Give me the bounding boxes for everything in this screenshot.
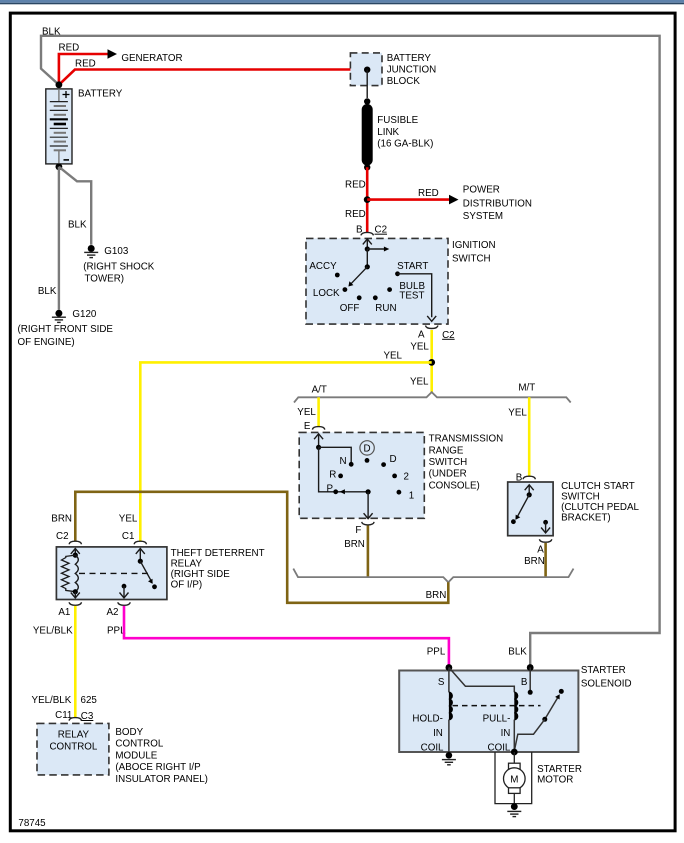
- wire BLK battery to top rail to starter solenoid B: [41, 36, 660, 666]
- battery negative junction dot: [56, 163, 63, 170]
- trans entry arrow up: [314, 434, 323, 439]
- battery junction block: [350, 53, 382, 86]
- svg-text:YEL: YEL: [410, 376, 429, 387]
- ignition feed arrow right: [367, 248, 384, 250]
- svg-text:N: N: [340, 456, 347, 467]
- node pull-in coil bottom junction: [511, 749, 518, 756]
- arrow to P contact: [340, 489, 345, 494]
- svg-text:PULL-: PULL-: [483, 714, 511, 725]
- svg-text:YEL: YEL: [119, 513, 138, 524]
- svg-text:S: S: [438, 677, 445, 688]
- svg-text:M/T: M/T: [518, 383, 535, 394]
- brace BRN bundle: [293, 569, 573, 583]
- svg-text:BLK: BLK: [42, 27, 61, 38]
- ground G120: [55, 310, 62, 317]
- svg-text:2: 2: [404, 472, 409, 483]
- connector F cup: [362, 522, 374, 525]
- contact LOCK: [343, 287, 348, 292]
- clutch start switch box: [508, 482, 553, 536]
- node ignition feed dot: [365, 246, 370, 251]
- node trans feed dot: [316, 445, 321, 450]
- contact 1: [397, 490, 402, 495]
- node relay switch pivot: [138, 559, 143, 564]
- contact solenoid switch upper: [559, 689, 564, 694]
- transmission range switch box: [299, 432, 424, 518]
- node relay coil top: [73, 553, 78, 558]
- svg-text:CLUTCH START: CLUTCH START: [561, 481, 635, 492]
- svg-text:BATTERY: BATTERY: [78, 89, 123, 100]
- wire PPL relay A2 to starter solenoid S: [124, 606, 449, 668]
- connector A1 cup: [69, 602, 81, 605]
- svg-text:BATTERY: BATTERY: [387, 53, 432, 64]
- svg-text:SYSTEM: SYSTEM: [463, 211, 503, 222]
- svg-text:RED: RED: [345, 179, 366, 190]
- svg-text:CONTROL: CONTROL: [49, 742, 97, 753]
- svg-text:MODULE: MODULE: [115, 751, 157, 762]
- relay switch entry arrow up: [136, 549, 145, 554]
- connector C11 arc: [69, 718, 81, 721]
- connector C2 relay arc: [69, 541, 81, 544]
- svg-text:ACCY: ACCY: [309, 261, 337, 272]
- svg-text:SWITCH: SWITCH: [429, 457, 468, 468]
- wire clutch right contact down: [545, 522, 547, 533]
- svg-text:START: START: [397, 261, 428, 272]
- svg-text:SWITCH: SWITCH: [561, 492, 600, 503]
- brace A/T M/T: [294, 392, 571, 402]
- svg-text:D: D: [390, 454, 397, 465]
- wire trans feed to P row: [319, 447, 369, 492]
- svg-text:M: M: [510, 775, 518, 786]
- svg-text:TEST: TEST: [399, 290, 424, 301]
- svg-text:OF I/P): OF I/P): [171, 580, 203, 591]
- relay A2 exit arrow down: [123, 586, 125, 598]
- svg-text:BODY: BODY: [115, 727, 143, 738]
- svg-text:JUNCTION: JUNCTION: [387, 65, 437, 76]
- contact 2: [392, 474, 397, 479]
- contact solenoid switch lower: [542, 717, 547, 722]
- svg-text:BRN: BRN: [524, 556, 545, 567]
- svg-text:YEL: YEL: [508, 408, 527, 419]
- contact OFF: [357, 295, 362, 300]
- svg-text:R: R: [329, 469, 336, 480]
- svg-text:YEL: YEL: [410, 342, 429, 353]
- svg-text:625: 625: [81, 695, 98, 706]
- relay dashed link: [79, 572, 148, 574]
- contact R: [338, 474, 343, 479]
- svg-text:(ABOCE RIGHT I/P: (ABOCE RIGHT I/P: [115, 762, 201, 773]
- wire YEL/BLK relay A1 to BCM: [74, 606, 77, 718]
- svg-text:MOTOR: MOTOR: [537, 774, 573, 785]
- connector C2 ignition bottom cup: [426, 326, 438, 329]
- svg-text:SOLENOID: SOLENOID: [581, 678, 632, 689]
- svg-text:RELAY: RELAY: [58, 730, 90, 741]
- wire START to exit: [398, 274, 432, 317]
- node trans exit junction: [366, 489, 371, 494]
- svg-text:BLK: BLK: [68, 220, 87, 231]
- contact D right: [381, 462, 386, 467]
- svg-text:HOLD-: HOLD-: [412, 714, 442, 725]
- battery: [46, 89, 72, 164]
- fusible link: [362, 110, 373, 161]
- svg-text:C2: C2: [56, 531, 69, 542]
- svg-text:D: D: [364, 444, 371, 455]
- svg-text:TOWER): TOWER): [85, 273, 125, 284]
- svg-text:78745: 78745: [18, 818, 46, 829]
- relay switch arm: [140, 561, 152, 583]
- svg-text:FUSIBLE: FUSIBLE: [377, 115, 418, 126]
- arrow to generator: [108, 49, 118, 59]
- svg-text:(UNDER: (UNDER: [429, 469, 467, 480]
- clutch arm to lower contact: [517, 495, 529, 517]
- node clutch arm pivot: [527, 492, 532, 497]
- contact clutch lower-left: [511, 519, 516, 524]
- svg-text:STARTER: STARTER: [537, 764, 582, 775]
- wire B to contact: [529, 668, 531, 691]
- svg-text:DISTRIBUTION: DISTRIBUTION: [463, 199, 532, 210]
- ground G103: [88, 245, 95, 252]
- contact relay A2: [122, 584, 127, 589]
- wire RED fusible link to ignition switch: [366, 167, 369, 232]
- wire RED battery to junction block: [59, 70, 367, 85]
- top title bar: [0, 0, 684, 3]
- svg-text:INSULATOR PANEL): INSULATOR PANEL): [115, 774, 208, 785]
- svg-text:E: E: [304, 421, 311, 432]
- svg-text:BLOCK: BLOCK: [387, 76, 421, 87]
- svg-text:RED: RED: [75, 58, 96, 69]
- contact START: [395, 271, 400, 276]
- clutch exit arrow down: [541, 528, 550, 533]
- wire hold-in coil to ground: [448, 720, 450, 756]
- wire BLK battery to G120: [58, 167, 60, 310]
- svg-text:BRN: BRN: [344, 539, 365, 550]
- svg-text:YEL: YEL: [297, 407, 316, 418]
- svg-text:(16 GA-BLK): (16 GA-BLK): [377, 139, 433, 150]
- wire S to hold-in coil: [448, 668, 450, 693]
- wire S branch to pull-in coil: [449, 668, 514, 693]
- starter solenoid box: [399, 671, 578, 753]
- svg-text:IN: IN: [501, 728, 511, 739]
- connector C2 ignition top arc: [361, 232, 373, 235]
- svg-text:RUN: RUN: [375, 303, 396, 314]
- wire trans exit down: [367, 492, 369, 519]
- body control module box: [37, 723, 109, 775]
- svg-text:C1: C1: [122, 531, 135, 542]
- svg-text:SWITCH: SWITCH: [452, 254, 491, 265]
- node B terminal: [527, 664, 534, 671]
- svg-text:TRANSMISSION: TRANSMISSION: [429, 434, 504, 445]
- svg-text:A2: A2: [107, 607, 119, 618]
- svg-text:(RIGHT SHOCK: (RIGHT SHOCK: [83, 262, 155, 273]
- connector E arc: [312, 427, 324, 430]
- svg-text:A: A: [418, 330, 425, 341]
- theft deterrent relay box: [56, 547, 166, 600]
- svg-text:(RIGHT SIDE: (RIGHT SIDE: [171, 569, 231, 580]
- solenoid switch arm: [545, 698, 558, 720]
- connector C1 relay arc: [134, 541, 146, 544]
- svg-text:A: A: [537, 544, 544, 555]
- svg-text:G120: G120: [72, 309, 97, 320]
- svg-text:RELAY: RELAY: [171, 559, 203, 570]
- relay A1 exit arrow down: [74, 592, 76, 598]
- svg-text:BLK: BLK: [508, 647, 527, 658]
- arrow to power distribution system: [449, 195, 459, 205]
- wire BRN bundle to theft deterrent relay C2: [75, 492, 448, 603]
- ground starter motor: [511, 803, 518, 810]
- wire junction block to fusible link: [366, 70, 368, 98]
- wire RED to generator: [59, 54, 108, 85]
- svg-text:YEL/BLK: YEL/BLK: [32, 695, 72, 706]
- svg-text:(CLUTCH PEDAL: (CLUTCH PEDAL: [561, 502, 639, 513]
- circled D indicator: [360, 441, 374, 455]
- svg-text:STARTER: STARTER: [581, 665, 626, 676]
- svg-text:A/T: A/T: [312, 384, 327, 395]
- connector A clutch cup: [539, 539, 551, 542]
- ignition rotary arm to LOCK: [351, 267, 368, 284]
- svg-text:G103: G103: [104, 246, 129, 257]
- wire trans feed to N contact: [319, 447, 352, 464]
- svg-text:C2: C2: [375, 225, 388, 236]
- svg-text:THEFT DETERRENT: THEFT DETERRENT: [171, 548, 265, 559]
- relay coil resistor zigzag: [62, 555, 76, 592]
- contact relay switch lower: [152, 584, 157, 589]
- trans exit arrow down: [364, 513, 373, 518]
- starter motor bracket: [495, 752, 532, 804]
- ground hold-in coil: [446, 752, 453, 759]
- wire YEL A/T drop: [317, 397, 320, 427]
- contact P: [333, 489, 338, 494]
- svg-text:RED: RED: [345, 209, 366, 220]
- ignition entry arrow up: [363, 239, 372, 244]
- svg-text:RED: RED: [59, 42, 80, 53]
- svg-text:YEL/BLK: YEL/BLK: [33, 626, 73, 637]
- svg-text:LOCK: LOCK: [313, 288, 340, 299]
- svg-text:IGNITION: IGNITION: [452, 240, 496, 251]
- svg-text:LINK: LINK: [377, 127, 399, 138]
- svg-text:PPL: PPL: [427, 647, 446, 658]
- contact D below circle: [365, 458, 370, 463]
- svg-text:CONTROL: CONTROL: [115, 739, 163, 750]
- svg-text:C3: C3: [81, 711, 94, 722]
- svg-text:RED: RED: [418, 188, 439, 199]
- svg-text:BRACKET): BRACKET): [561, 513, 611, 524]
- ignition rotary pivot: [366, 249, 368, 267]
- svg-text:COIL: COIL: [488, 743, 511, 754]
- pull-in coil bumps: [514, 692, 517, 719]
- svg-text:IN: IN: [433, 728, 443, 739]
- wire switch lower to pull-in junction: [514, 719, 545, 751]
- wire YEL ignition to junction: [430, 330, 433, 392]
- hold-in coil bumps: [449, 692, 452, 719]
- svg-text:BRN: BRN: [426, 590, 447, 601]
- contact RUN: [373, 295, 378, 300]
- ignition switch box: [306, 238, 448, 324]
- wire YEL junction to left drop: [140, 362, 431, 541]
- svg-text:POWER: POWER: [463, 184, 500, 195]
- svg-text:BRN: BRN: [51, 513, 72, 524]
- contact clutch right: [543, 520, 548, 525]
- clutch M/T YEL drop: [528, 397, 531, 476]
- svg-text:B: B: [521, 677, 528, 688]
- clutch entry arrow up: [525, 485, 534, 490]
- contact BULB TEST: [387, 287, 392, 292]
- wire BRN trans F to brace: [367, 526, 370, 578]
- relay coil entry arrow up: [71, 549, 80, 554]
- node relay coil bottom: [73, 589, 78, 594]
- svg-text:GENERATOR: GENERATOR: [121, 53, 182, 64]
- svg-text:COIL: COIL: [421, 743, 444, 754]
- wire BRN clutch A to brace: [544, 543, 547, 577]
- svg-text:OFF: OFF: [340, 303, 360, 314]
- node red junction: [364, 196, 371, 203]
- svg-text:A1: A1: [58, 607, 70, 618]
- svg-text:C2: C2: [442, 330, 455, 341]
- battery B+ junction dot: [56, 81, 63, 88]
- wire pull-in coil to junction: [513, 720, 515, 752]
- wire RED to power distribution: [367, 198, 449, 201]
- svg-text:P: P: [327, 483, 334, 494]
- svg-text:RANGE: RANGE: [429, 445, 464, 456]
- connector B clutch arc: [523, 476, 535, 479]
- contact N: [349, 462, 354, 467]
- svg-text:BLK: BLK: [38, 286, 57, 297]
- svg-text:OF ENGINE): OF ENGINE): [18, 337, 75, 348]
- ignition exit arrow down: [427, 316, 436, 321]
- relay coil arcs: [75, 555, 78, 592]
- starter motor: [513, 752, 515, 763]
- connector A2 cup: [118, 602, 130, 605]
- svg-text:F: F: [355, 525, 361, 536]
- svg-text:YEL: YEL: [383, 351, 402, 362]
- solenoid dashed link: [453, 705, 541, 707]
- contact B inner: [528, 690, 533, 695]
- svg-text:CONSOLE): CONSOLE): [429, 481, 480, 492]
- node YEL junction: [428, 359, 435, 366]
- contact ACCY: [335, 273, 340, 278]
- wire BLK battery to G103: [59, 167, 91, 245]
- node S terminal: [446, 664, 453, 671]
- svg-text:1: 1: [409, 491, 414, 502]
- svg-text:(RIGHT FRONT SIDE: (RIGHT FRONT SIDE: [18, 324, 114, 335]
